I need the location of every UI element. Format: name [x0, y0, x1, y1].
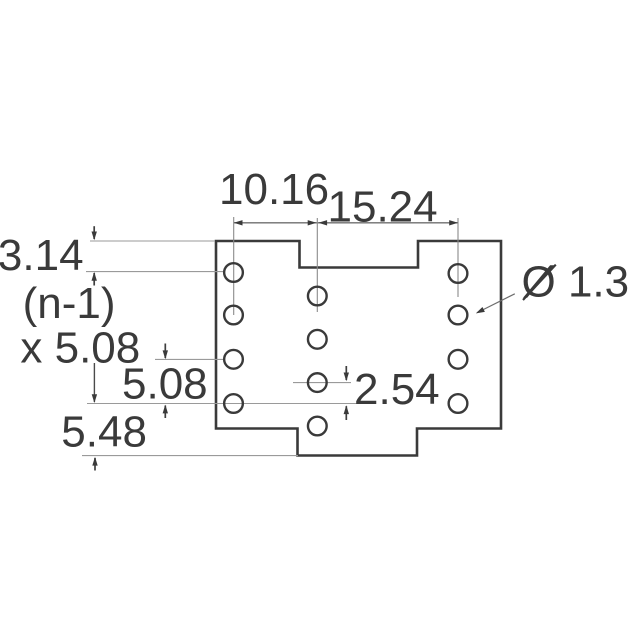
arrow 5.08 up	[163, 405, 168, 414]
arrow 5.48 up	[92, 457, 97, 466]
hole L2	[224, 306, 243, 325]
wire: extension line middle row3 y=382.6	[293, 382, 351, 384]
hole M4	[308, 417, 327, 436]
wire: top dimension line y=222.8	[234, 222, 458, 224]
svg-text:5.48: 5.48	[61, 407, 147, 456]
hole R1	[449, 264, 468, 283]
wire: extension line row3 y=359.4	[155, 358, 224, 360]
component body outline	[216, 241, 501, 456]
arrow 15.24 left	[318, 220, 327, 225]
hole L3	[224, 350, 243, 369]
diameter symbol slash extension	[523, 265, 556, 300]
hole M2	[308, 330, 327, 349]
arrow leader	[475, 307, 485, 316]
hole R3	[449, 350, 468, 369]
arrow 15.24 right	[449, 220, 458, 225]
wire: 2.54 upper arrow tail	[345, 366, 347, 380]
svg-text:Ø 1.3: Ø 1.3	[522, 258, 630, 307]
wire: extension line row1 y=271.6	[86, 271, 223, 273]
wire: (n-1) dim upper arrow tail	[93, 273, 95, 286]
wire: leader line for hole diameter	[478, 294, 515, 313]
svg-text:10.16: 10.16	[219, 165, 329, 214]
arrow 10.16 right	[308, 220, 317, 225]
wire: 5.08 upper arrow tail	[164, 344, 166, 359]
wire: vertical extension left column x=233.7	[233, 217, 235, 315]
svg-text:(n-1): (n-1)	[23, 279, 116, 328]
wire: 2.54 lower arrow tail	[345, 406, 347, 420]
hole L4	[224, 394, 243, 413]
svg-text:2.54: 2.54	[354, 365, 440, 414]
arrow 5.08 down	[163, 350, 168, 359]
hole R4	[449, 394, 468, 413]
wire: 5.48 bottom arrow tail	[94, 458, 96, 471]
wire: vertical extension middle column x=317.3	[316, 218, 318, 312]
wire: vertical extension right column x=458	[457, 218, 459, 297]
wire: 3.14 top arrow tail	[93, 226, 95, 239]
arrow (n-1) down	[92, 394, 97, 403]
arrow 10.16 left	[234, 220, 243, 225]
svg-text:5.08: 5.08	[122, 360, 208, 409]
svg-text:3.14: 3.14	[0, 231, 84, 280]
wire: extension line row4 y=403.5	[87, 403, 360, 405]
arrow (n-1) up	[92, 272, 97, 281]
arrow 3.14 down	[92, 232, 97, 241]
wire: extension line bottom y=455.6	[82, 455, 298, 457]
hole L1	[224, 263, 243, 282]
hole M3	[308, 373, 327, 392]
hole M1	[308, 287, 327, 306]
wire: (n-1) dim lower segment	[93, 363, 95, 402]
arrow 2.54 down	[344, 373, 349, 382]
wire: extension line top edge y=241	[90, 240, 215, 242]
arrow 2.54 up	[344, 405, 349, 414]
wire: 5.08 lower arrow tail	[164, 406, 166, 419]
svg-text:15.24: 15.24	[328, 182, 438, 231]
hole R2	[449, 306, 468, 325]
